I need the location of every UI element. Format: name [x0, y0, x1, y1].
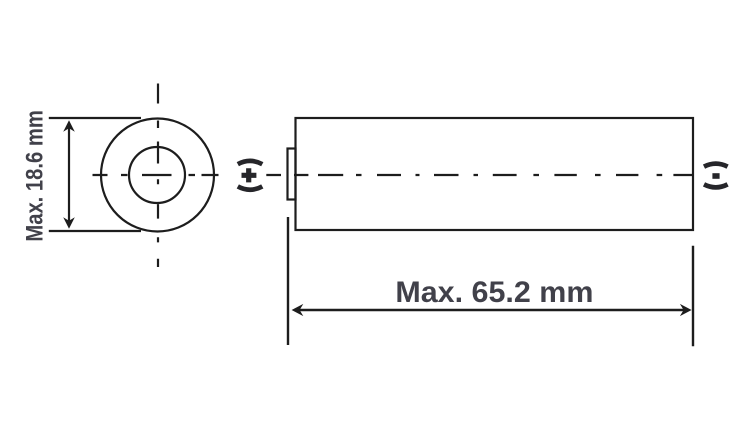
- svg-text:Max. 18.6 mm: Max. 18.6 mm: [21, 110, 48, 242]
- negative terminal label (-): minus sign: [712, 173, 719, 179]
- positive terminal label (+): lower paren arc: [238, 186, 262, 189]
- diameter dimension: top arrowhead: [63, 120, 75, 132]
- length dimension: left arrowhead: [292, 304, 304, 316]
- diameter dimension: bottom arrowhead: [63, 217, 75, 229]
- diameter dimension: top extension line: [49, 117, 141, 119]
- side view horizontal centerline (dash-dot): [266, 174, 693, 176]
- svg-text:Max. 65.2 mm: Max. 65.2 mm: [395, 276, 593, 309]
- length dimension: left extension line: [287, 217, 289, 345]
- diameter dimension line: [68, 124, 70, 226]
- battery end view: inner circle (positive button): [129, 147, 185, 203]
- battery side view: body rectangle: [296, 118, 694, 230]
- battery end view: outer circle: [101, 119, 214, 232]
- length dimension line: [296, 309, 686, 312]
- end view vertical centerline: [157, 84, 159, 268]
- length dimension: right extension line: [692, 246, 694, 347]
- end view horizontal centerline: [93, 174, 219, 176]
- battery side view: positive terminal bump: [288, 149, 296, 200]
- positive terminal label (+): plus sign: [242, 168, 257, 182]
- diameter dimension: bottom extension line: [49, 230, 141, 232]
- negative terminal label (-): upper paren arc: [704, 164, 728, 167]
- length dimension: right arrowhead: [680, 304, 692, 316]
- positive terminal label (+): upper paren arc: [238, 161, 262, 164]
- negative terminal label (-): lower paren arc: [704, 184, 728, 187]
